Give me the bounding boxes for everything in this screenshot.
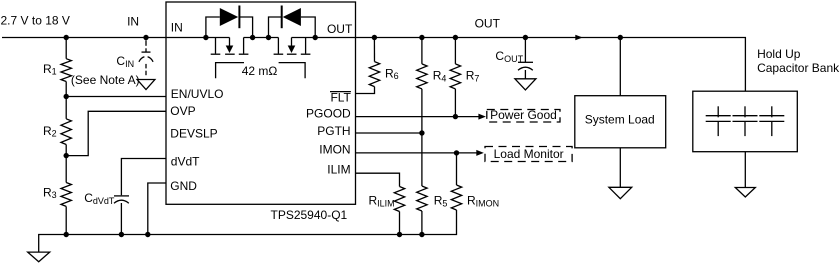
wire: internal rail segment B: [244, 37, 279, 39]
wire: input rail IN segment A: [2, 37, 230, 39]
svg-text:TPS25940-Q1: TPS25940-Q1: [271, 208, 348, 222]
diode D1 body diode of FET1: [206, 6, 253, 38]
capacitor CIN (optional, dashed): [139, 40, 153, 75]
node: GND junction: [145, 232, 150, 237]
svg-text:IMON: IMON: [319, 143, 350, 157]
ground: capacitor bank ground: [735, 188, 755, 198]
wire: dVdT pin to CdVdT: [121, 159, 166, 196]
svg-text:OUT: OUT: [475, 17, 501, 31]
capacitor: bank cap 2: [733, 106, 758, 136]
svg-text:EN/UVLO: EN/UVLO: [171, 87, 224, 101]
bracket: 42 mOhm RDSon annotation: [216, 63, 244, 79]
node: R4 top junction: [419, 35, 424, 40]
svg-text:DEVSLP: DEVSLP: [170, 126, 217, 140]
arrow: OUT current direction: [575, 35, 582, 41]
svg-text:Capacitor Bank: Capacitor Bank: [757, 61, 840, 75]
node: R5 bottom junction: [419, 232, 424, 237]
ground: main ground symbol: [28, 252, 50, 262]
block: System Load box: [575, 96, 666, 148]
arrow: Power Good: [478, 114, 486, 120]
block: Hold Up Capacitor Bank box: [693, 91, 798, 152]
node: R7 top junction: [453, 35, 458, 40]
svg-text:2.7 V to 18 V: 2.7 V to 18 V: [1, 13, 70, 27]
transistor Q1 internal FET1: [211, 38, 249, 55]
node: FET1 drain junction: [203, 35, 208, 40]
resistor R4: [421, 38, 423, 64]
capacitor CdVdT: [114, 196, 129, 235]
node: R7 bottom junction on PGOOD: [453, 114, 458, 119]
svg-text:OVP: OVP: [170, 104, 195, 118]
node: FET2 drain junction: [313, 35, 318, 40]
wire: PGTH to divider: [356, 132, 422, 134]
svg-text:FLT: FLT: [330, 90, 351, 104]
capacitor: bank cap 1: [706, 106, 731, 136]
node: CIN junction: [143, 35, 148, 40]
wire: system load to ground: [619, 148, 621, 188]
svg-text:IN: IN: [171, 20, 183, 34]
node: PGTH junction: [419, 130, 424, 135]
svg-text:Load Monitor: Load Monitor: [494, 147, 564, 161]
svg-text:PGOOD: PGOOD: [306, 106, 351, 120]
wire: PGOOD to Power Good flag: [356, 116, 479, 118]
node: input junction at R1: [63, 35, 68, 40]
ground: system load ground: [609, 187, 632, 198]
svg-text:(See Note A): (See Note A): [71, 73, 140, 87]
wire: OUT rail segment C, turns down to capacitor bank: [292, 38, 746, 92]
resistor R7 pull-up on PGOOD: [454, 38, 456, 64]
node: EN/UVLO junction: [63, 94, 68, 99]
wire: OUT to system load: [619, 38, 621, 96]
wire: ground rail: [39, 210, 457, 252]
resistor RILIM: [394, 187, 404, 212]
wire: EN/UVLO to IC: [66, 96, 166, 98]
transistor Q2 internal FET2: [274, 38, 311, 55]
diode D2 body diode of FET2: [269, 6, 316, 38]
svg-text:System Load: System Load: [585, 112, 655, 126]
resistor R2: [65, 97, 67, 119]
svg-text:GND: GND: [170, 179, 197, 193]
svg-text:Power Good: Power Good: [490, 108, 557, 122]
node: OVP junction between R2 and R3: [63, 153, 68, 158]
wire: IMON to Load Monitor: [356, 152, 477, 154]
resistor R3: [65, 156, 67, 183]
wire: capacitor bank to ground: [744, 152, 746, 188]
node: diode D1 cathode junction: [250, 35, 255, 40]
resistor RIMON: [456, 153, 458, 185]
node: diode D2 cathode junction: [266, 35, 271, 40]
svg-text:Hold Up: Hold Up: [757, 47, 801, 61]
svg-text:ILIM: ILIM: [327, 162, 350, 176]
node: system load junction: [618, 35, 623, 40]
capacitor: bank cap 3: [759, 106, 784, 136]
wire: ILIM to RILIM: [356, 173, 400, 186]
op-amp U1: TPS25940-Q1 eFuse body: [166, 2, 356, 204]
flag: Power Good dashed box: [487, 110, 560, 123]
wire: GND pin to ground rail: [148, 183, 166, 235]
resistor R6 pull-up on FLT: [373, 38, 375, 62]
node: R6 top junction: [372, 35, 377, 40]
capacitor COUT: [518, 40, 533, 79]
ground: CIN ground: [137, 80, 155, 90]
node: RIMON top junction: [454, 150, 459, 155]
svg-text:IN: IN: [127, 14, 139, 28]
ground: COUT ground: [515, 79, 536, 90]
svg-text:dVdT: dVdT: [171, 155, 200, 169]
svg-text:PGTH: PGTH: [317, 124, 350, 138]
node: COUT junction: [523, 35, 528, 40]
wire: OVP from IC down to divider: [66, 111, 166, 155]
resistor R5: [421, 133, 423, 186]
svg-text:42 mΩ: 42 mΩ: [242, 64, 278, 78]
svg-text:OUT: OUT: [327, 22, 353, 36]
node: R3 bottom junction: [63, 232, 68, 237]
node: CdVdT bottom junction: [119, 232, 124, 237]
arrow: Load Monitor: [476, 150, 484, 156]
node: RILIM bottom junction: [397, 232, 402, 237]
flag: Load Monitor dashed box: [485, 147, 572, 162]
resistor R1: [65, 38, 67, 59]
